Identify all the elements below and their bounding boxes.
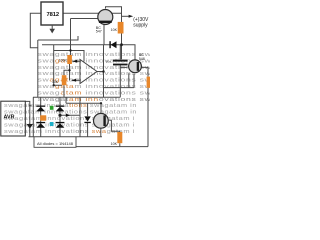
svg-text:7812: 7812 [47, 12, 60, 18]
svg-text:AVR: AVR [4, 114, 15, 120]
svg-text:swagatam innovations sw: swagatam innovations sw [38, 90, 151, 96]
svg-text:swagatam innovations sw: swagatam innovations sw [38, 97, 151, 103]
svg-text:100K: 100K [59, 59, 68, 63]
svg-text:swagatam innovations swagatam: swagatam innovations swagatam in [4, 110, 137, 116]
svg-text:10K: 10K [111, 28, 118, 32]
svg-text:10u: 10u [106, 60, 111, 64]
svg-text:+: + [29, 104, 32, 110]
svg-text:swagatam innovations swagatam: swagatam innovations swagatam in [4, 103, 137, 109]
svg-text:10K: 10K [52, 80, 59, 84]
svg-text:supply: supply [133, 23, 148, 29]
svg-text:10K: 10K [111, 142, 118, 146]
svg-text:swagatam innovations sw: swagatam innovations sw [38, 52, 151, 58]
svg-text:swagatam innovations swagatam: swagatam innovations swagatam i [4, 116, 135, 122]
svg-text:548: 548 [139, 57, 145, 61]
svg-text:547: 547 [96, 30, 102, 34]
svg-text:All diodes = 1N4148: All diodes = 1N4148 [37, 142, 73, 146]
svg-text:swagatam innovations swagatam: swagatam innovations swagatam i [4, 122, 135, 128]
